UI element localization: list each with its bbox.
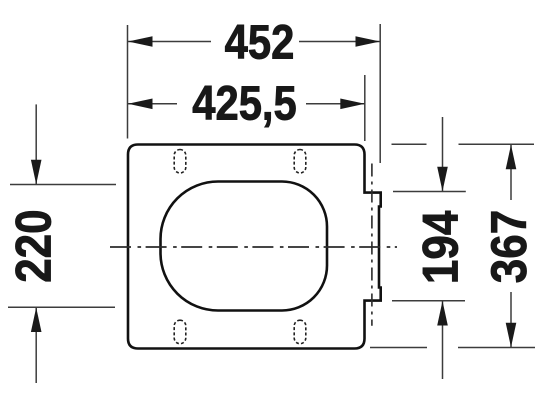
extension line 367 bottom xyxy=(370,347,427,349)
dimension line 425,5 xyxy=(128,103,177,105)
slot bottom-left xyxy=(174,320,186,344)
extension line 194 top xyxy=(393,191,466,193)
dimension line 367 xyxy=(510,145,512,200)
svg-text:367: 367 xyxy=(480,210,536,283)
extension line right 452 xyxy=(379,24,381,163)
buffer axis centerline xyxy=(371,164,373,326)
arrow 425,5 right xyxy=(340,99,365,110)
extension line 194 bottom xyxy=(392,300,465,302)
svg-text:452: 452 xyxy=(225,15,295,69)
arrow 194 bottom (points up) xyxy=(437,301,448,326)
svg-text:425,5: 425,5 xyxy=(192,76,296,130)
slot bottom-right xyxy=(294,320,306,344)
extension line 367 top xyxy=(392,143,427,145)
arrow 220 bottom (points up) xyxy=(31,308,42,333)
seat opening xyxy=(161,182,328,311)
arrow 425,5 left xyxy=(128,99,153,110)
extension line left (452/425,5) xyxy=(127,25,129,139)
slot top-left xyxy=(174,150,186,174)
extension line right 425,5 xyxy=(364,75,366,141)
arrow 452 left xyxy=(128,36,153,47)
horizontal centerline xyxy=(110,246,397,248)
arrow 194 top (points down) xyxy=(437,167,448,192)
dimension line 194 xyxy=(442,117,444,191)
extension line 220 top xyxy=(10,184,116,186)
arrow 452 right xyxy=(356,36,381,47)
arrow 220 top (points down) xyxy=(31,160,42,185)
arrow 367 bottom (points down) xyxy=(506,323,517,348)
seat outline with buffer tab xyxy=(128,145,381,349)
slot top-right xyxy=(294,150,306,174)
dimension line 220 xyxy=(35,104,37,184)
arrow 367 top (points up) xyxy=(506,145,517,170)
dimension line 452 xyxy=(128,41,211,43)
svg-text:194: 194 xyxy=(412,211,468,284)
svg-text:220: 220 xyxy=(5,209,61,282)
extension line 220 bottom xyxy=(8,306,115,308)
